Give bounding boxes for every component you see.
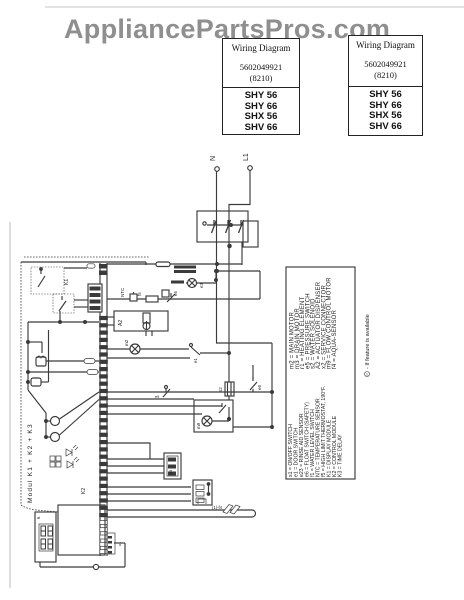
svg-text:A2: A2: [118, 320, 124, 326]
svg-text:e1: e1: [193, 357, 198, 363]
svg-text:K1: K1: [64, 279, 70, 285]
svg-text:(1)-f4: (1)-f4: [212, 505, 223, 510]
svg-text:N: N: [210, 156, 217, 161]
svg-text:NTC: NTC: [120, 287, 125, 297]
svg-text:- If feature is available: - If feature is available: [365, 314, 371, 369]
svg-text:Modul K1 + K2 + K3: Modul K1 + K2 + K3: [27, 423, 34, 503]
svg-text:e3: e3: [199, 282, 204, 288]
svg-text:x3: x3: [168, 469, 173, 474]
svg-text:f5: f5: [137, 292, 142, 296]
svg-text:L1: L1: [243, 153, 250, 161]
svg-text:s2: s2: [218, 387, 223, 392]
svg-text:e9: e9: [155, 395, 159, 399]
svg-text:m9: m9: [196, 422, 201, 429]
svg-text:m2: m2: [124, 339, 129, 346]
svg-text:e6: e6: [257, 384, 262, 390]
svg-text:K3 = TIME DELAY: K3 = TIME DELAY: [338, 434, 344, 477]
svg-text:1: 1: [366, 373, 368, 377]
svg-text:al: al: [37, 515, 40, 520]
svg-text:x1: x1: [117, 541, 122, 546]
svg-text:K2: K2: [81, 488, 87, 494]
svg-text:f4 = AQUA-SENSOR: f4 = AQUA-SENSOR: [332, 309, 338, 369]
